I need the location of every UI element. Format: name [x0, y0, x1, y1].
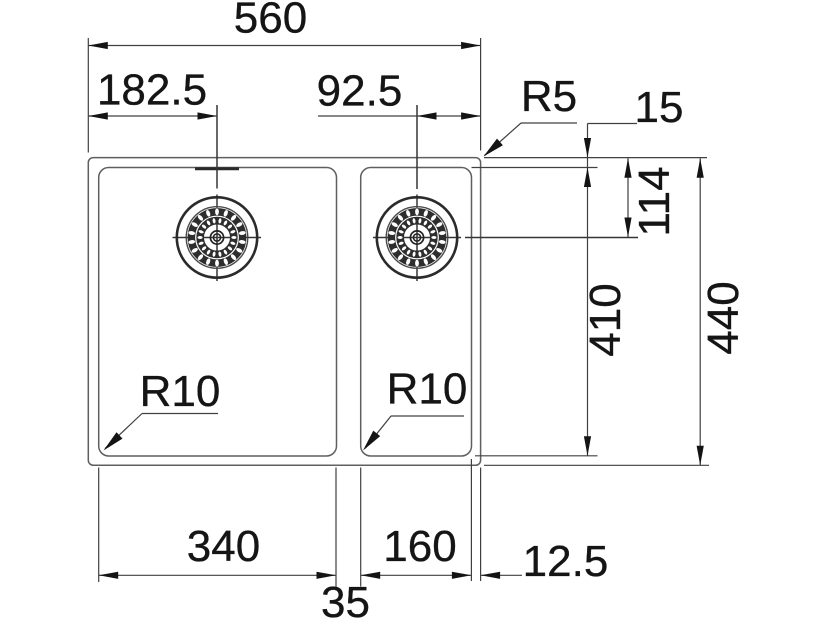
svg-text:35: 35	[321, 578, 370, 620]
sink outer rim	[88, 158, 480, 466]
dimension 160 (right bowl width)	[361, 459, 472, 587]
dimension 92.5 (right drain offset)	[317, 67, 481, 120]
radius callout R5 (outer rim corner)	[484, 72, 578, 157]
right drain centerline horizontal, extended right for 114 dimension	[373, 237, 638, 239]
svg-text:R5: R5	[521, 72, 577, 121]
svg-text:560: 560	[234, 0, 307, 43]
svg-text:12.5: 12.5	[523, 537, 609, 586]
right drain centerline vertical	[416, 105, 418, 281]
svg-text:114: 114	[630, 166, 679, 236]
dimension 15 (rim to bowl edge)	[472, 83, 708, 456]
dimension 12.5 (bowl to rim edge)	[481, 468, 609, 587]
dimension 440 (overall depth)	[484, 158, 748, 465]
svg-text:160: 160	[383, 522, 456, 571]
dimension 410 (bowl depth)	[475, 283, 630, 456]
svg-text:92.5: 92.5	[317, 67, 403, 116]
left drain strainer	[177, 197, 257, 277]
radius callout R10 (right basin corner)	[363, 365, 467, 451]
svg-text:R10: R10	[140, 367, 221, 416]
svg-text:440: 440	[699, 281, 748, 354]
svg-text:340: 340	[187, 522, 260, 571]
dimension 182.5 (left drain offset)	[88, 66, 217, 120]
dimension 114 (rim to drain center)	[624, 158, 679, 237]
dimension 560 (overall width)	[88, 0, 480, 153]
right drain strainer	[377, 197, 457, 277]
right basin bowl	[361, 168, 472, 457]
radius callout R10 (left basin corner)	[104, 367, 221, 451]
left basin bowl	[99, 168, 337, 457]
tap hole mark on left basin rim	[195, 167, 239, 170]
svg-text:15: 15	[635, 83, 684, 132]
svg-text:410: 410	[581, 283, 630, 356]
dimension 340 (left bowl width)	[99, 468, 336, 587]
left drain centerline vertical	[216, 105, 218, 281]
svg-text:182.5: 182.5	[97, 66, 207, 115]
left drain centerline horizontal	[173, 237, 262, 239]
svg-text:R10: R10	[387, 365, 468, 414]
